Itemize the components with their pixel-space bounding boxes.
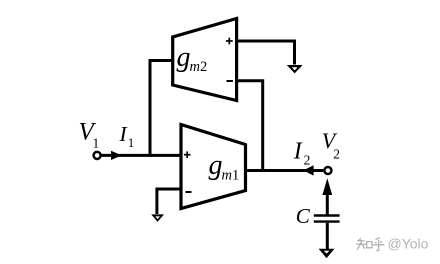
ground at gm2 plus input <box>287 65 303 73</box>
svg-text:@Yolo: @Yolo <box>388 236 429 252</box>
svg-text:1: 1 <box>128 135 135 150</box>
wire gm1 minus input to ground <box>157 189 181 214</box>
capacitor bottom wire <box>326 223 329 250</box>
ground at capacitor bottom <box>319 249 335 259</box>
terminal V2 <box>324 167 331 174</box>
plus pin gm2 <box>226 38 233 45</box>
minus pin gm2 <box>227 80 233 82</box>
svg-text:2: 2 <box>200 59 207 75</box>
op-amp U2 gm2 body <box>173 19 237 101</box>
op-amp U1 gm1 body <box>181 125 246 209</box>
svg-text:I: I <box>293 139 303 165</box>
svg-text:2: 2 <box>333 147 340 162</box>
current arrow I1 <box>111 151 122 160</box>
svg-text:2: 2 <box>304 152 311 167</box>
capacitor C plates <box>314 216 340 222</box>
capacitor top wire with up arrow <box>322 178 332 214</box>
svg-text:m: m <box>222 168 232 184</box>
ground at gm1 minus input <box>151 214 164 222</box>
wire gm2 plus input to ground <box>237 41 295 65</box>
wire gm2 minus input down to output node <box>237 81 263 171</box>
svg-text:g: g <box>177 42 191 73</box>
current arrow I2 <box>303 165 313 175</box>
watermark zhihu char 乎 <box>373 238 384 251</box>
svg-text:I: I <box>119 122 128 146</box>
svg-text:g: g <box>209 150 223 181</box>
wire main input V1 to gm1 plus <box>102 154 182 157</box>
wire gm2 output feedback to input node <box>150 61 173 157</box>
wire gm1 output to V2 terminal <box>246 169 324 172</box>
terminal V1 <box>94 152 101 159</box>
plus pin gm1 <box>184 151 191 158</box>
svg-text:m: m <box>190 59 200 75</box>
svg-text:C: C <box>296 204 311 228</box>
svg-text:1: 1 <box>93 136 100 151</box>
minus pin gm1 <box>186 191 192 193</box>
svg-text:1: 1 <box>232 168 239 184</box>
watermark zhihu char 知 <box>356 238 372 250</box>
